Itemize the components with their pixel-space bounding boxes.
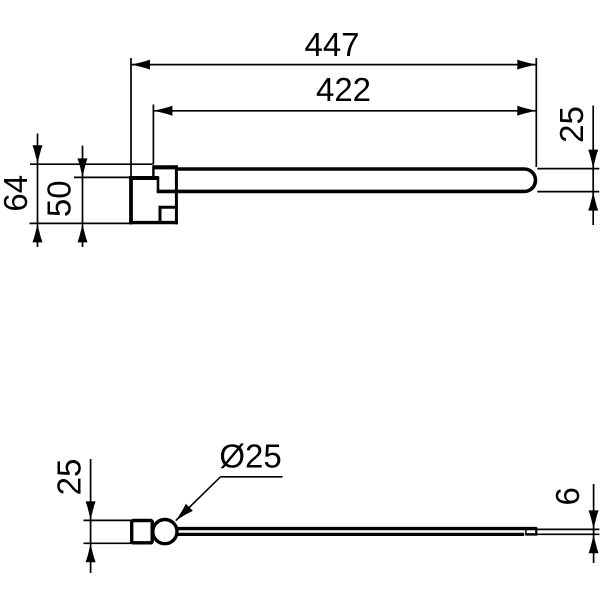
diameter 25 leader underline xyxy=(221,476,283,478)
dimension 25 lower extension line xyxy=(537,191,599,193)
wall plate inner right edge xyxy=(157,177,160,193)
dimension 50 extension line top xyxy=(74,176,132,178)
dimension 25 upper arrow xyxy=(588,150,598,169)
dimension 447 left arrow xyxy=(131,60,150,70)
hinge tab left edge xyxy=(152,165,154,179)
dimension 422 extension line left xyxy=(152,105,154,165)
hinge tab top edge xyxy=(153,165,178,169)
hinge right edge xyxy=(175,165,178,224)
dimension 64/50 shared bottom extension line xyxy=(30,222,133,224)
dimension 50 lower arrow xyxy=(78,223,88,242)
svg-text:6: 6 xyxy=(549,487,586,505)
dimension 447 line xyxy=(131,64,536,66)
wall plate top edge xyxy=(129,176,158,180)
dimension 64 lower arrow xyxy=(33,223,43,242)
dimension 25 side extension line bottom xyxy=(84,542,132,544)
svg-text:50: 50 xyxy=(41,180,78,217)
svg-text:64: 64 xyxy=(0,175,34,212)
towel bar outline with rounded end xyxy=(157,169,536,191)
dimension 25 line xyxy=(592,106,594,226)
svg-text:25: 25 xyxy=(51,459,88,496)
dimension 50 line xyxy=(82,146,84,247)
wall plate side view xyxy=(132,521,153,543)
wall plate bottom edge xyxy=(129,221,178,224)
svg-text:422: 422 xyxy=(316,71,371,108)
hinge lower block left edge xyxy=(159,206,162,224)
dimension 447 extension line left xyxy=(130,58,132,176)
diameter 25 leader arrow xyxy=(172,504,193,524)
dimension 25 side line xyxy=(90,459,92,573)
dimension 6 extension line top xyxy=(537,528,599,530)
hinge lower block top edge xyxy=(159,206,178,209)
dimension 50 upper arrow xyxy=(78,158,88,177)
wall plate left edge xyxy=(129,176,133,224)
bar top edge side view xyxy=(176,527,536,530)
dimension 6 lower arrow xyxy=(589,534,599,553)
dimension 64 upper arrow xyxy=(33,145,43,164)
dimension 25 lower arrow xyxy=(588,192,598,211)
bar tip bottom edge xyxy=(526,533,537,536)
dimension 64 line xyxy=(37,134,39,248)
dimension 25 upper extension line xyxy=(537,168,599,170)
dimension 25 side lower arrow xyxy=(86,543,96,562)
dimension 6 upper arrow xyxy=(589,510,599,529)
diameter 25 leader diagonal xyxy=(176,477,221,521)
hinge knuckle circle xyxy=(153,520,177,544)
bar bottom edge side view xyxy=(177,533,525,536)
dimension 25 side extension line top xyxy=(84,519,132,521)
bar tip end cap xyxy=(535,527,537,535)
dimension 447 right arrow xyxy=(517,60,536,70)
svg-text:25: 25 xyxy=(553,106,590,143)
dimension 422 right arrow xyxy=(517,106,536,116)
svg-text:447: 447 xyxy=(304,26,359,63)
dimension 64 extension line top xyxy=(30,163,153,165)
dimension 447/422 extension line right xyxy=(535,58,537,167)
svg-text:Ø25: Ø25 xyxy=(219,438,281,475)
dimension 6 line xyxy=(593,484,595,563)
dimension 422 line xyxy=(153,110,536,112)
dimension 6 extension line bottom xyxy=(537,533,599,535)
bar tip step tick xyxy=(525,530,527,536)
dimension 422 left arrow xyxy=(153,106,172,116)
dimension 25 side upper arrow xyxy=(86,501,96,520)
